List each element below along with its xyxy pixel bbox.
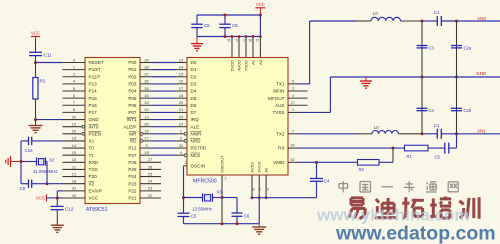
pin chip2-left number 24	[179, 121, 184, 126]
node AN2 right junction	[455, 20, 458, 23]
pin chip2-left number 13	[179, 57, 184, 62]
svg-text:OSCOUT: OSCOUT	[220, 155, 225, 173]
wire OSCOUT node to C6	[222, 197, 237, 199]
svg-text:C5: C5	[191, 214, 197, 219]
svg-text:39: 39	[144, 57, 149, 62]
svg-text:27: 27	[148, 157, 153, 162]
svg-text:34: 34	[144, 93, 149, 98]
svg-text:RESET: RESET	[89, 60, 105, 65]
svg-text:AT89C51: AT89C51	[86, 207, 108, 213]
svg-text:23: 23	[179, 114, 184, 119]
wire C4 to AVSS rail	[316, 181, 318, 197]
svg-text:X2: X2	[89, 181, 95, 186]
wire antenna right vertical	[456, 21, 458, 134]
pin chip1-left EA/VP (31)	[63, 186, 86, 191]
svg-text:OSCIN: OSCIN	[191, 164, 206, 169]
svg-text:C2b: C2b	[464, 108, 472, 113]
pin chip1-left PSEN (29)	[63, 129, 86, 136]
svg-text:P12: P12	[128, 146, 137, 151]
svg-text:RXD: RXD	[89, 160, 99, 165]
svg-text:VMID: VMID	[273, 160, 285, 165]
wire chip1 WR (16)	[140, 129, 187, 136]
wire junction to C12	[56, 198, 58, 206]
svg-text:P02: P02	[128, 74, 137, 79]
pin chip2-left number 21	[179, 107, 184, 112]
svg-text:EA/VP: EA/VP	[89, 188, 103, 193]
op-amp U2 body MFRC500	[187, 58, 288, 176]
watermark: 易迪拓培训 (dark red)	[349, 197, 480, 219]
svg-text:AVDD: AVDD	[237, 60, 242, 71]
svg-text:14: 14	[72, 143, 77, 148]
svg-text:2: 2	[259, 188, 261, 192]
svg-text:MFIN: MFIN	[273, 89, 284, 94]
svg-text:D4: D4	[191, 89, 197, 94]
svg-text:P21: P21	[128, 196, 137, 201]
svg-text:24: 24	[148, 179, 153, 184]
pin chip2-top AVDD (6)	[236, 35, 240, 57]
svg-text:IRQ: IRQ	[191, 117, 200, 122]
capacitor C8	[219, 15, 238, 37]
svg-text:P05: P05	[128, 96, 137, 101]
svg-text:18: 18	[72, 179, 77, 184]
svg-text:P01: P01	[128, 67, 137, 72]
pin chip2 TX1 (5)	[288, 79, 298, 83]
svg-text:AVSS: AVSS	[250, 162, 255, 173]
pin chip2-bottom (2)	[258, 175, 261, 199]
ground (oscillator)	[252, 224, 266, 235]
svg-text:MFOUT: MFOUT	[268, 96, 285, 101]
pin chip2-bottom (28)	[251, 175, 255, 199]
svg-text:AN1: AN1	[477, 129, 486, 134]
svg-text:C4: C4	[429, 108, 435, 113]
pin chip2 NWR bubble	[184, 132, 187, 135]
svg-text:19: 19	[265, 188, 269, 192]
svg-text:29: 29	[291, 144, 295, 148]
wire R3 to GND node	[35, 99, 37, 120]
wire vertical ground bus	[20, 141, 22, 184]
wire chip1 P26 (27)	[140, 157, 161, 162]
node OSCOUT junction	[221, 196, 224, 199]
svg-text:C5: C5	[435, 155, 441, 160]
svg-text:24: 24	[179, 121, 184, 126]
capacitor C4 (left lower)	[417, 108, 435, 113]
wire C11 to RESET node	[35, 56, 37, 63]
svg-text:D6: D6	[191, 103, 197, 108]
svg-text:DVSS: DVSS	[257, 161, 262, 172]
svg-text:NWR: NWR	[191, 131, 203, 136]
node AN1 label	[477, 129, 486, 134]
svg-text:A2: A2	[264, 167, 269, 173]
capacitor C6	[232, 213, 251, 224]
wire C16 to chip X1	[32, 140, 63, 142]
svg-text:ALE/P: ALE/P	[123, 124, 136, 129]
pin chip2 AUX (27)	[288, 101, 308, 105]
label AT89C51	[86, 207, 108, 213]
wire R1 to C5	[428, 147, 445, 149]
svg-text:4: 4	[292, 94, 294, 98]
wire chip1 P04 (35)	[140, 86, 187, 91]
wire chip2 VDD rail	[197, 36, 260, 38]
svg-text:23: 23	[148, 186, 153, 191]
svg-text:X3: X3	[217, 190, 223, 195]
svg-text:C6: C6	[244, 213, 250, 218]
capacitor C1 (AN1)	[434, 123, 441, 139]
wire chip1 P12 (3)	[140, 143, 187, 148]
svg-text:C5: C5	[204, 23, 210, 28]
svg-text:26: 26	[148, 164, 153, 169]
wire C15 branch	[183, 198, 185, 214]
svg-text:C8: C8	[232, 23, 238, 28]
pin chip1-left X2 (18)	[63, 179, 86, 184]
wire chip1 RD (17)	[140, 136, 187, 143]
svg-text:INT0: INT0	[89, 124, 99, 129]
wire chip1 P24 (25)	[140, 171, 161, 176]
svg-text:32: 32	[179, 143, 184, 148]
svg-text:R3: R3	[40, 79, 46, 84]
svg-text:40: 40	[72, 193, 77, 198]
svg-text:15: 15	[72, 150, 77, 155]
pin chip2-top TVDD (3)	[243, 35, 247, 57]
svg-text:PSEN: PSEN	[89, 131, 102, 136]
svg-text:R1: R1	[407, 154, 413, 159]
ground (antenna mid)	[360, 77, 372, 88]
pin chip2-left number 2	[180, 136, 183, 141]
wire RX net	[298, 147, 405, 149]
pin chip2-top A0 (17)	[256, 35, 262, 57]
wire EA/VP tie	[57, 191, 63, 198]
pin chip2-left number 15	[179, 72, 184, 77]
svg-text:28: 28	[144, 150, 149, 155]
wire chip1 P03 (36)	[140, 79, 187, 84]
pin chip1-left P20 (21)	[63, 171, 86, 176]
svg-text:L0: L0	[374, 125, 379, 130]
node RESET junction	[34, 61, 37, 64]
svg-text:P00: P00	[128, 60, 137, 65]
svg-text:P26: P26	[128, 160, 137, 165]
wire chip1 P02 (37)	[140, 72, 187, 77]
pin chip2 OSCIN (1)	[184, 161, 188, 166]
wire node to ground	[35, 120, 37, 125]
svg-text:36: 36	[144, 79, 149, 84]
svg-text:P14: P14	[89, 89, 98, 94]
watermark: www.edatop.com (steel blue)	[335, 223, 496, 244]
svg-text:13: 13	[144, 114, 149, 119]
pin chip2-left number 18	[179, 93, 184, 98]
node GND-row junction	[34, 118, 37, 121]
wire X2 net left segment	[21, 183, 29, 185]
node AN1 left junction	[421, 132, 424, 135]
svg-text:D2: D2	[191, 74, 197, 79]
svg-text:25: 25	[148, 171, 153, 176]
svg-text:ALE: ALE	[191, 124, 200, 129]
svg-text:C2a: C2a	[464, 45, 472, 50]
wire TX1 riser	[298, 21, 356, 84]
svg-text:X1: X1	[89, 139, 95, 144]
node AN1 right junction	[455, 132, 458, 135]
wire chip1 P22 (23)	[140, 186, 161, 191]
node AN2 left junction	[421, 20, 424, 23]
wire chip1 P25 (26)	[140, 164, 161, 169]
wire GND net to chip	[36, 119, 63, 121]
pin chip2 NCS bubble	[184, 154, 187, 157]
svg-text:C1: C1	[434, 10, 440, 15]
svg-text:RD: RD	[130, 139, 137, 144]
wire crystal right to X2 net	[46, 162, 48, 184]
svg-text:38: 38	[144, 64, 149, 69]
svg-text:21: 21	[72, 171, 77, 176]
svg-text:11.0592MHz: 11.0592MHz	[33, 169, 58, 174]
svg-text:17: 17	[144, 136, 149, 141]
pin chip2-top DVDD (31)	[227, 35, 233, 57]
node C6-rail junction	[236, 222, 239, 225]
resistor R1	[405, 145, 429, 159]
svg-text:C9: C9	[20, 186, 26, 191]
node crystal-X2 junction	[46, 182, 49, 185]
svg-text:20: 20	[72, 114, 77, 119]
svg-text:17: 17	[256, 39, 260, 43]
svg-text:5: 5	[292, 79, 294, 83]
svg-text:C11: C11	[44, 53, 53, 58]
svg-text:P16: P16	[89, 103, 98, 108]
node VCC junction	[56, 196, 59, 199]
pin chip1-left P11/T (2)	[63, 72, 86, 77]
pin chip1-left RXD (10)	[63, 157, 86, 162]
wire chip1 P21 (22)	[140, 193, 161, 198]
svg-text:P27: P27	[128, 153, 137, 158]
wire C1 to AN1	[441, 133, 500, 135]
svg-text:P22: P22	[128, 188, 137, 193]
pin chip1-left VCC (40)	[63, 193, 86, 198]
wire chip1 P06 (33)	[140, 100, 187, 105]
svg-text:22: 22	[148, 193, 153, 198]
pin chip2 VMID (30)	[288, 158, 298, 162]
svg-text:VCC: VCC	[256, 2, 265, 7]
pin chip1-left T1 (15)	[63, 150, 86, 155]
svg-text:VCC: VCC	[35, 195, 45, 200]
capacitor C3	[417, 45, 435, 50]
pin chip2-top A1 (18)	[248, 35, 254, 57]
wire rail drop to ground	[258, 198, 260, 224]
node C8 top junction	[224, 14, 227, 17]
svg-text:30: 30	[144, 121, 149, 126]
svg-text:32: 32	[144, 107, 149, 112]
svg-text:19: 19	[72, 136, 77, 141]
svg-text:P13: P13	[89, 81, 98, 86]
pin chip2-left number 20	[179, 100, 184, 105]
svg-text:P17: P17	[89, 110, 98, 115]
node OSCOUT-rail junction	[221, 222, 224, 225]
pin chip1-left P10/T (1)	[63, 64, 86, 69]
node GND rail junction right	[455, 76, 458, 79]
node AN2 label	[477, 16, 486, 21]
svg-text:7: 7	[292, 129, 294, 133]
watermark: www.yktchina.com (pale blue)	[316, 206, 469, 225]
capacitor C12	[51, 206, 74, 211]
wire L0 to C1	[422, 20, 437, 22]
svg-text:31: 31	[227, 39, 231, 43]
svg-text:12: 12	[72, 121, 77, 126]
pin chip2 OSCOUT	[222, 175, 227, 224]
svg-text:A0: A0	[258, 59, 263, 65]
svg-text:C16: C16	[25, 148, 34, 153]
capacitor C15	[178, 213, 198, 224]
wire chip1 P01 (38)	[140, 64, 187, 69]
crystal X2 11.0592MHz	[33, 157, 58, 174]
svg-text:AN2: AN2	[477, 16, 486, 21]
op-amp U1 body AT89C51	[85, 58, 140, 204]
wire crystal to OSCOUT	[213, 197, 223, 199]
svg-text:P07: P07	[128, 110, 137, 115]
svg-text:NRD: NRD	[191, 139, 202, 144]
svg-text:P06: P06	[128, 103, 137, 108]
capacitor C11	[29, 52, 52, 57]
wire chip1 ALE/P (30)	[140, 121, 187, 126]
wire chip1 P07 (32)	[140, 107, 187, 112]
wire VMID net	[298, 161, 358, 163]
node GND rail junction left	[421, 76, 424, 79]
svg-text:NCS: NCS	[191, 153, 201, 158]
crystal X3 13.56MHz	[192, 190, 222, 212]
svg-text:D5: D5	[191, 96, 197, 101]
svg-text:3: 3	[292, 87, 294, 91]
svg-text:RX: RX	[278, 146, 284, 151]
pin chip2 TVSS (1)	[288, 108, 298, 112]
svg-text:DVDD: DVDD	[230, 60, 235, 71]
svg-text:P25: P25	[128, 167, 137, 172]
svg-text:TXD: TXD	[89, 167, 99, 172]
svg-text:13: 13	[179, 57, 184, 62]
wire crystal left	[21, 161, 37, 163]
svg-text:28: 28	[251, 188, 255, 192]
wire TVSS to ground rail	[298, 77, 330, 112]
svg-text:INT1: INT1	[127, 117, 137, 122]
pin chip1-left P16 (7)	[63, 100, 86, 105]
svg-text:A1: A1	[251, 59, 256, 65]
svg-text:GND: GND	[89, 117, 100, 122]
watermark: 中国一卡通网 (gray)	[339, 181, 458, 192]
wire chip1 P23 (24)	[140, 179, 161, 184]
node C8 bottom junction	[224, 35, 227, 38]
svg-text:1: 1	[185, 161, 187, 165]
wire C1 to AN2	[441, 20, 500, 22]
svg-text:29: 29	[72, 129, 77, 134]
pin chip2-left number 32	[179, 143, 184, 148]
pin chip2 NRD bubble	[184, 140, 187, 143]
svg-text:37: 37	[144, 72, 149, 77]
svg-text:D1: D1	[191, 67, 197, 72]
wire node to R3	[35, 63, 37, 78]
svg-text:2: 2	[225, 177, 227, 181]
ground (reset network)	[29, 126, 43, 133]
svg-text:C1: C1	[434, 123, 440, 128]
wire VCC drop	[259, 15, 261, 37]
node VCC drop junction	[259, 14, 262, 17]
pin chip2 MFOUT (4)	[288, 94, 308, 98]
wire chip1 P00 (39)	[140, 57, 187, 62]
svg-text:20: 20	[179, 100, 184, 105]
svg-text:L0: L0	[373, 11, 378, 16]
wire TX2 to L0	[298, 133, 358, 135]
svg-text:D0: D0	[191, 60, 197, 65]
wire R2 to RX node	[379, 148, 393, 162]
wire top cap rail	[197, 14, 260, 16]
svg-text:16: 16	[179, 79, 184, 84]
svg-text:1: 1	[292, 108, 294, 112]
power VCC symbol (chip1 supply)	[35, 194, 46, 201]
svg-text:33: 33	[144, 100, 149, 105]
svg-text:P15: P15	[89, 96, 98, 101]
capacitor C16	[25, 137, 34, 153]
ground (C5 decoupling)	[191, 37, 203, 51]
node GND label	[476, 71, 487, 76]
ground (C12)	[51, 225, 64, 232]
wire OSCIN to crystal	[184, 197, 203, 199]
svg-text:13.56MHz: 13.56MHz	[192, 206, 212, 211]
svg-text:P10/T: P10/T	[89, 67, 101, 72]
pin chip2 TX2 (7)	[288, 129, 298, 133]
wire chip1 INT1 (13)	[140, 114, 187, 119]
wire C6 branch	[236, 198, 238, 213]
node crystal-ground junction	[20, 160, 23, 163]
power VCC symbol (reset network)	[31, 31, 40, 40]
svg-text:C4: C4	[324, 178, 330, 183]
pin chip1-left GND (20)	[63, 114, 86, 119]
svg-text:P04: P04	[128, 89, 137, 94]
svg-text:C12: C12	[65, 207, 74, 212]
wire ground rail	[330, 76, 500, 78]
svg-text:D7: D7	[191, 110, 197, 115]
wire chip1 P27 (28)	[140, 150, 187, 155]
svg-text:21: 21	[179, 107, 184, 112]
pin chip2-bottom (19)	[265, 175, 269, 199]
capacitor C5 (RX)	[435, 143, 449, 160]
svg-text:WR: WR	[129, 131, 137, 136]
svg-text:27: 27	[291, 101, 295, 105]
svg-text:6: 6	[236, 39, 238, 43]
pin chip2 MFIN (3)	[288, 87, 308, 91]
wire AVSS rail	[252, 197, 317, 199]
wire VMID to C4	[316, 162, 318, 178]
capacitor C2a	[451, 45, 472, 50]
pin chip1-left INT0 (12)	[63, 121, 86, 128]
pin chip1-left X1 (19)	[63, 136, 86, 141]
pin chip1-left P13 (4)	[63, 79, 86, 84]
svg-text:TVSS: TVSS	[273, 110, 285, 115]
node RX junction	[392, 147, 395, 150]
svg-text:T1: T1	[89, 153, 95, 158]
pin chip2-left number 1	[180, 129, 183, 134]
pin chip1-left P15 (6)	[63, 93, 86, 98]
svg-text:15: 15	[179, 72, 184, 77]
svg-text:TX1: TX1	[276, 81, 285, 86]
pin chip1-left P17 (8)	[63, 107, 86, 112]
wire X1 net left segment	[21, 140, 29, 142]
node OSCIN junction	[182, 196, 185, 199]
wire OSCIN down	[183, 166, 185, 198]
capacitor C1 (AN2)	[434, 10, 441, 26]
svg-text:C3: C3	[429, 45, 435, 50]
svg-text:17: 17	[179, 86, 184, 91]
svg-text:18: 18	[179, 93, 184, 98]
resistor R2	[358, 160, 380, 173]
wire C12 to ground	[56, 210, 58, 225]
pin chip1-left TXD (11)	[63, 164, 86, 169]
svg-text:P03: P03	[128, 81, 137, 86]
svg-text:14: 14	[179, 64, 184, 69]
wire C5 up to AN1	[449, 134, 457, 148]
svg-text:30: 30	[291, 158, 295, 162]
inductor L0 (TX2)	[358, 125, 422, 134]
